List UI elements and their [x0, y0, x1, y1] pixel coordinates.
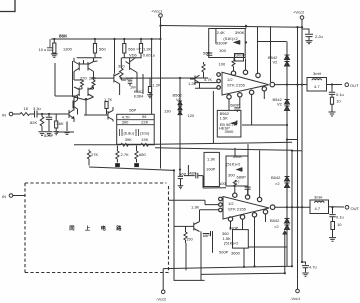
svg-text:1/2: 1/2 [227, 77, 233, 82]
svg-text:220: 220 [80, 76, 87, 81]
svg-text:56K: 56K [57, 121, 64, 126]
svg-text:56P: 56P [179, 172, 186, 177]
svg-text:-Vcc2: -Vcc2 [156, 297, 167, 302]
svg-text:1.5K: 1.5K [220, 115, 229, 120]
svg-text:3600: 3600 [231, 251, 241, 256]
svg-text:390K: 390K [233, 154, 243, 159]
svg-text:3300P: 3300P [234, 53, 246, 58]
svg-text:B542: B542 [271, 175, 281, 180]
svg-text:1.2K: 1.2K [143, 47, 152, 52]
svg-text:680P: 680P [229, 225, 239, 230]
svg-text:3900: 3900 [225, 129, 235, 134]
svg-text:(6.8u): (6.8u) [124, 131, 135, 136]
svg-text:56P: 56P [129, 108, 136, 113]
svg-text:1/2: 1/2 [228, 201, 234, 206]
svg-text:+Vcc2: +Vcc2 [293, 10, 305, 15]
svg-text:1.3K: 1.3K [191, 205, 200, 210]
svg-text:2.2u: 2.2u [315, 34, 323, 39]
svg-text:OUT: OUT [350, 83, 359, 88]
svg-text:V2: V2 [176, 97, 182, 102]
svg-text:V2: V2 [273, 60, 279, 65]
svg-text:4.7K: 4.7K [204, 77, 213, 82]
svg-text:1300: 1300 [63, 47, 73, 52]
svg-text:×2: ×2 [275, 181, 280, 186]
svg-text:1.7K: 1.7K [104, 97, 113, 102]
svg-text:100: 100 [219, 181, 226, 186]
svg-text:2.4K: 2.4K [217, 30, 226, 35]
svg-text:≈7: ≈7 [136, 47, 141, 52]
svg-text:3300P: 3300P [216, 41, 228, 46]
svg-text:2.7K: 2.7K [121, 152, 130, 157]
svg-text:V2: V2 [277, 102, 283, 107]
svg-text:IN: IN [2, 113, 6, 118]
svg-text:E364: E364 [134, 94, 144, 99]
svg-text:STK 2155: STK 2155 [227, 83, 246, 88]
svg-text:0.001u: 0.001u [143, 53, 155, 58]
svg-text:48P: 48P [189, 171, 196, 176]
svg-text:560: 560 [128, 47, 135, 52]
svg-text:0.1u: 0.1u [336, 92, 344, 97]
svg-text:+Vcc1: +Vcc1 [151, 9, 163, 14]
svg-text:4.7u: 4.7u [309, 265, 317, 270]
svg-text:15K: 15K [141, 137, 148, 142]
svg-text:10: 10 [336, 99, 341, 104]
svg-text:3mH: 3mH [313, 71, 322, 76]
svg-text:1K: 1K [24, 106, 29, 111]
svg-text:100: 100 [219, 62, 226, 67]
svg-text:560: 560 [99, 47, 106, 52]
svg-text:22K: 22K [141, 120, 148, 125]
svg-text:130: 130 [164, 109, 171, 114]
svg-text:3mH: 3mH [314, 195, 323, 200]
svg-text:VD6: VD6 [129, 53, 138, 58]
svg-text:同上电路: 同上电路 [69, 224, 132, 232]
svg-text:OUT: OUT [351, 206, 360, 211]
svg-text:56P: 56P [126, 76, 133, 81]
svg-text:10: 10 [337, 222, 342, 227]
svg-text:120: 120 [188, 113, 195, 118]
svg-text:(10u): (10u) [140, 131, 150, 136]
svg-text:STK 2155: STK 2155 [228, 206, 247, 211]
svg-text:(-): (-) [236, 179, 241, 184]
svg-text:4.7: 4.7 [314, 84, 320, 89]
svg-text:500P: 500P [219, 250, 229, 255]
svg-text:820P: 820P [44, 133, 54, 138]
svg-text:680: 680 [139, 152, 146, 157]
svg-text:86K: 86K [59, 34, 68, 39]
svg-text:1.2K: 1.2K [188, 81, 197, 86]
svg-text:-Vcc1: -Vcc1 [290, 296, 301, 301]
svg-text:82K: 82K [30, 120, 37, 125]
svg-text:300: 300 [219, 48, 226, 53]
svg-text:27K: 27K [91, 152, 98, 157]
svg-text:150: 150 [186, 237, 193, 242]
svg-text:56P: 56P [203, 51, 210, 56]
svg-text:100P: 100P [206, 166, 216, 171]
svg-text:(51K)×2: (51K)×2 [226, 162, 241, 167]
svg-text:B542: B542 [270, 218, 280, 223]
svg-text:3.3u: 3.3u [33, 106, 41, 111]
svg-text:×2: ×2 [274, 224, 279, 229]
svg-text:68P: 68P [203, 233, 210, 238]
svg-text:320: 320 [118, 64, 125, 69]
svg-text:10 u: 10 u [39, 47, 47, 52]
svg-text:680P: 680P [230, 103, 240, 108]
svg-text:1.3K: 1.3K [207, 156, 216, 161]
svg-text:56: 56 [142, 114, 147, 119]
svg-text:0.1u: 0.1u [336, 215, 344, 220]
svg-text:(51K)×2: (51K)×2 [224, 241, 239, 246]
svg-text:39K: 39K [125, 137, 132, 142]
svg-text:300: 300 [228, 173, 235, 178]
svg-text:4.7: 4.7 [315, 206, 321, 211]
svg-text:1M: 1M [130, 85, 136, 90]
svg-text:1.2K: 1.2K [153, 82, 162, 87]
svg-text:IN: IN [2, 194, 6, 199]
svg-text:390K: 390K [235, 30, 245, 35]
svg-text:220: 220 [89, 76, 96, 81]
svg-text:390: 390 [122, 120, 129, 125]
